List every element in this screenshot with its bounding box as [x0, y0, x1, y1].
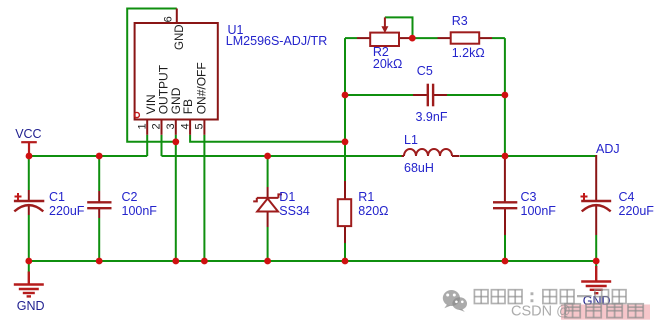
svg-text:CSDN @: CSDN @: [511, 304, 571, 320]
